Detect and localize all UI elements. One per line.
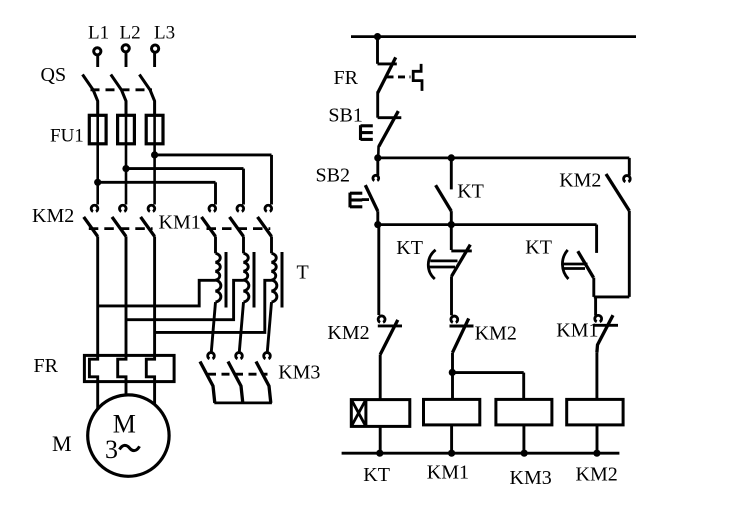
svg-text:KT: KT [396, 237, 423, 259]
svg-text:KM2: KM2 [32, 205, 74, 227]
svg-text:KM1: KM1 [427, 462, 469, 484]
svg-text:FR: FR [34, 355, 59, 377]
svg-text:KM2: KM2 [559, 170, 601, 192]
svg-text:KM1: KM1 [556, 320, 598, 342]
svg-text:3: 3 [105, 435, 118, 464]
svg-text:KT: KT [363, 464, 390, 486]
svg-text:KM2: KM2 [327, 322, 369, 344]
svg-text:M: M [52, 431, 72, 456]
svg-text:KM2: KM2 [576, 464, 618, 486]
svg-text:SB1: SB1 [328, 105, 362, 127]
svg-text:KM2: KM2 [475, 323, 517, 345]
svg-text:QS: QS [41, 64, 67, 86]
svg-text:KM1: KM1 [159, 212, 201, 234]
svg-text:KM3: KM3 [278, 362, 320, 384]
svg-text:SB2: SB2 [316, 165, 350, 187]
svg-text:T: T [297, 262, 309, 284]
svg-text:KM3: KM3 [510, 467, 552, 489]
svg-text:KT: KT [525, 237, 552, 259]
svg-text:L3: L3 [154, 23, 175, 44]
svg-text:FR: FR [334, 67, 359, 89]
svg-text:L1: L1 [88, 23, 109, 44]
svg-text:FU1: FU1 [50, 126, 84, 147]
svg-text:L2: L2 [120, 23, 141, 44]
svg-text:KT: KT [457, 181, 484, 203]
